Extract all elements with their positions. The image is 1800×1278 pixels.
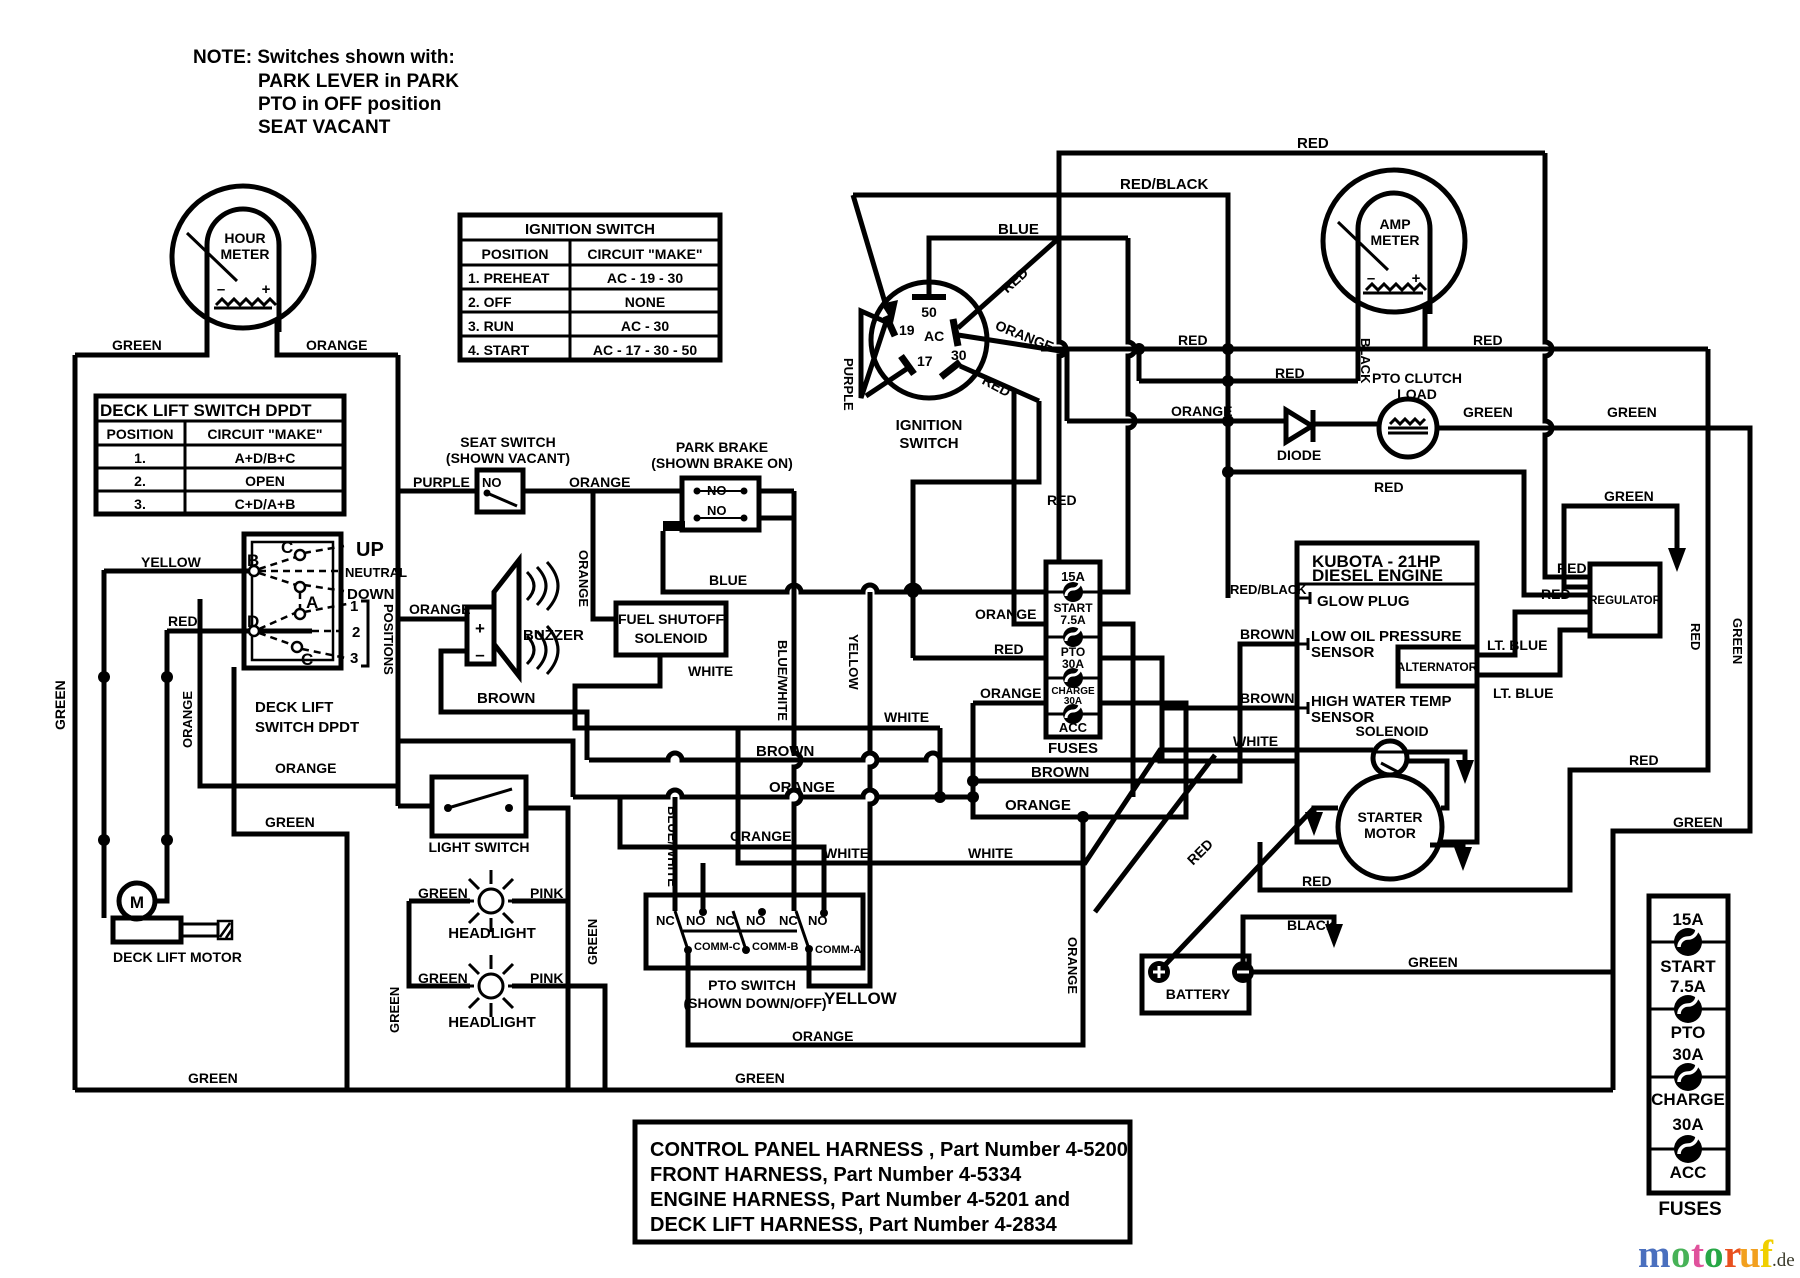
- buzzer: [467, 560, 584, 676]
- diode D1: [1286, 410, 1312, 442]
- svg-text:POSITIONS: POSITIONS: [381, 604, 396, 675]
- svg-text:SWITCH: SWITCH: [899, 435, 958, 452]
- svg-text:BLUE/WHITE: BLUE/WHITE: [775, 640, 790, 721]
- svg-text:DIODE: DIODE: [1277, 447, 1321, 463]
- hour meter: [172, 186, 314, 332]
- svg-text:ORANGE: ORANGE: [306, 337, 367, 353]
- svg-text:ORANGE: ORANGE: [275, 760, 336, 776]
- svg-text:RED: RED: [1297, 135, 1329, 152]
- svg-text:LIGHT SWITCH: LIGHT SWITCH: [428, 839, 529, 855]
- KUBOTA engine box: [1297, 543, 1477, 842]
- svg-text:GREEN: GREEN: [1463, 404, 1513, 420]
- svg-text:SWITCH DPDT: SWITCH DPDT: [255, 719, 359, 736]
- svg-text:UP: UP: [356, 539, 384, 561]
- battery red diagonal: [1164, 808, 1314, 966]
- svg-text:(SHOWN BRAKE ON): (SHOWN BRAKE ON): [651, 455, 793, 471]
- svg-text:30A: 30A: [1672, 1115, 1703, 1134]
- svg-text:ALTERNATOR: ALTERNATOR: [1397, 660, 1478, 674]
- svg-text:50: 50: [921, 304, 937, 320]
- svg-text:30: 30: [951, 347, 967, 363]
- headlight 2 wires: [409, 901, 470, 986]
- headlight 1: [418, 870, 563, 942]
- svg-text:MOTOR: MOTOR: [1364, 825, 1416, 841]
- svg-text:COMM-A: COMM-A: [815, 944, 861, 956]
- svg-text:LOW OIL PRESSURE: LOW OIL PRESSURE: [1311, 628, 1462, 645]
- svg-text:A+D/B+C: A+D/B+C: [235, 450, 296, 466]
- svg-text:ORANGE: ORANGE: [409, 601, 470, 617]
- svg-text:COMM-B: COMM-B: [752, 941, 798, 953]
- svg-text:GREEN: GREEN: [52, 680, 68, 730]
- motoruf logo: [1638, 1233, 1795, 1276]
- svg-text:PURPLE: PURPLE: [841, 358, 856, 411]
- svg-text:WHITE: WHITE: [688, 663, 733, 679]
- junction dots: [98, 671, 110, 683]
- battery: [1142, 956, 1254, 1013]
- svg-text:WHITE: WHITE: [884, 709, 929, 725]
- svg-text:BROWN: BROWN: [756, 743, 814, 760]
- svg-text:ACC: ACC: [1059, 720, 1088, 735]
- deck lift switch DPDT component: [244, 534, 407, 736]
- svg-text:7.5A: 7.5A: [1060, 613, 1086, 627]
- svg-text:BATTERY: BATTERY: [1166, 986, 1231, 1002]
- svg-text:NO: NO: [707, 503, 727, 518]
- svg-text:FUEL SHUTOFF: FUEL SHUTOFF: [618, 611, 724, 627]
- svg-text:RED: RED: [1688, 623, 1703, 650]
- svg-text:CHARGE: CHARGE: [1651, 1090, 1725, 1109]
- node brown junction: [967, 775, 979, 787]
- svg-text:METER: METER: [221, 246, 270, 262]
- svg-text:RED: RED: [994, 641, 1024, 657]
- svg-text:o: o: [1704, 1233, 1724, 1276]
- svg-text:DECK LIFT HARNESS, Part Number: DECK LIFT HARNESS, Part Number 4-2834: [650, 1214, 1058, 1236]
- svg-text:AMP: AMP: [1379, 216, 1410, 232]
- svg-text:–: –: [475, 645, 484, 664]
- svg-text:+: +: [262, 281, 271, 298]
- svg-text:ACC: ACC: [1670, 1163, 1707, 1182]
- svg-text:GREEN: GREEN: [188, 1070, 238, 1086]
- wire white to NO1: [701, 863, 706, 912]
- svg-text:BROWN: BROWN: [1240, 626, 1294, 642]
- svg-text:7.5A: 7.5A: [1670, 977, 1706, 996]
- svg-text:.de: .de: [1772, 1250, 1795, 1271]
- svg-text:DECK LIFT SWITCH DPDT: DECK LIFT SWITCH DPDT: [100, 401, 312, 420]
- svg-text:C: C: [301, 650, 313, 669]
- svg-text:NONE: NONE: [625, 294, 665, 310]
- svg-text:NC: NC: [716, 913, 735, 928]
- svg-text:FRONT HARNESS, Part Number 4-5: FRONT HARNESS, Part Number 4-5334: [650, 1164, 1022, 1186]
- svg-text:HEADLIGHT: HEADLIGHT: [448, 925, 536, 942]
- svg-text:1: 1: [350, 598, 358, 615]
- wire from 17 region down: [913, 401, 1039, 658]
- wire RED long vertical from top: [1545, 153, 1590, 577]
- svg-text:BROWN: BROWN: [1240, 690, 1294, 706]
- svg-text:+: +: [475, 619, 485, 638]
- headlight 1 wires: [409, 899, 470, 904]
- svg-text:REGULATOR: REGULATOR: [1589, 595, 1661, 607]
- svg-text:3: 3: [350, 650, 358, 667]
- seat switch: [446, 434, 570, 512]
- svg-text:NO: NO: [482, 475, 502, 490]
- svg-text:CIRCUIT "MAKE": CIRCUIT "MAKE": [207, 426, 322, 442]
- svg-text:IGNITION SWITCH: IGNITION SWITCH: [525, 221, 655, 238]
- svg-text:(SHOWN DOWN/OFF): (SHOWN DOWN/OFF): [683, 995, 826, 1011]
- svg-text:CONTROL PANEL HARNESS , Part N: CONTROL PANEL HARNESS , Part Number 4-52…: [650, 1139, 1128, 1161]
- svg-text:m: m: [1638, 1233, 1671, 1276]
- svg-text:RED: RED: [1629, 752, 1659, 768]
- svg-text:PTO CLUTCH: PTO CLUTCH: [1372, 370, 1462, 386]
- svg-text:OPEN: OPEN: [245, 473, 285, 489]
- svg-text:HIGH WATER TEMP: HIGH WATER TEMP: [1311, 693, 1452, 710]
- svg-text:RED: RED: [1047, 492, 1077, 508]
- svg-text:WHITE: WHITE: [968, 845, 1013, 861]
- fuel shutoff solenoid: [616, 603, 726, 655]
- svg-text:SEAT VACANT: SEAT VACANT: [258, 117, 391, 138]
- svg-text:DIESEL ENGINE: DIESEL ENGINE: [1312, 566, 1443, 585]
- svg-text:PARK BRAKE: PARK BRAKE: [676, 439, 768, 455]
- svg-text:PTO: PTO: [1671, 1023, 1706, 1042]
- svg-text:15A: 15A: [1672, 910, 1703, 929]
- svg-text:GREEN: GREEN: [1673, 814, 1723, 830]
- svg-text:GREEN: GREEN: [265, 814, 315, 830]
- svg-text:2.: 2.: [134, 473, 146, 489]
- svg-text:3. RUN: 3. RUN: [468, 318, 514, 334]
- svg-text:NOTE: Switches shown with:: NOTE: Switches shown with:: [193, 47, 455, 68]
- arrow diagonal into 19: [853, 195, 886, 306]
- svg-text:RED: RED: [1302, 873, 1332, 889]
- svg-text:BROWN: BROWN: [477, 690, 535, 707]
- svg-text:LT. BLUE: LT. BLUE: [1493, 685, 1553, 701]
- node orange junction: [1077, 811, 1089, 823]
- node white/orange junction: [934, 791, 946, 803]
- svg-text:RED: RED: [168, 613, 198, 629]
- svg-text:ORANGE: ORANGE: [576, 550, 591, 607]
- svg-text:FUSES: FUSES: [1048, 740, 1098, 757]
- svg-text:ORANGE: ORANGE: [569, 474, 630, 490]
- wire ORANGE main vertical from hour meter: [396, 355, 401, 806]
- svg-text:4. START: 4. START: [468, 342, 530, 358]
- svg-text:DECK LIFT: DECK LIFT: [255, 699, 333, 716]
- svg-text:GREEN: GREEN: [112, 337, 162, 353]
- svg-text:RED/BLACK: RED/BLACK: [1230, 582, 1307, 597]
- svg-text:o: o: [1671, 1233, 1691, 1276]
- svg-text:COMM-C: COMM-C: [694, 941, 740, 953]
- wire vertical red branch: [155, 630, 167, 901]
- svg-text:POSITION: POSITION: [107, 426, 174, 442]
- svg-text:RED: RED: [1374, 479, 1404, 495]
- svg-text:AC: AC: [924, 328, 944, 344]
- svg-text:YELLOW: YELLOW: [824, 989, 898, 1008]
- svg-text:GREEN: GREEN: [735, 1070, 785, 1086]
- svg-text:1.: 1.: [134, 450, 146, 466]
- svg-text:PURPLE: PURPLE: [413, 474, 470, 490]
- svg-text:2: 2: [352, 624, 360, 641]
- svg-text:RED/BLACK: RED/BLACK: [1120, 176, 1208, 193]
- wire white branch vertical: [938, 728, 943, 797]
- wire light switch left: [398, 804, 432, 809]
- svg-text:NC: NC: [779, 913, 798, 928]
- ignition switch table: [460, 215, 720, 360]
- svg-text:AC - 19 - 30: AC - 19 - 30: [607, 270, 683, 286]
- svg-text:BROWN: BROWN: [1031, 764, 1089, 781]
- svg-text:STARTER: STARTER: [1357, 809, 1422, 825]
- svg-text:HOUR: HOUR: [224, 230, 265, 246]
- svg-text:WHITE: WHITE: [824, 845, 869, 861]
- svg-text:GREEN: GREEN: [1730, 618, 1745, 664]
- PTO clutch load: [1372, 370, 1462, 457]
- svg-text:GREEN: GREEN: [1604, 488, 1654, 504]
- svg-text:GREEN: GREEN: [1408, 954, 1458, 970]
- solenoid right arrow: [1407, 752, 1465, 762]
- svg-text:3.: 3.: [134, 496, 146, 512]
- svg-text:ORANGE: ORANGE: [1171, 403, 1232, 419]
- harness text box: [635, 1122, 1130, 1242]
- svg-text:ORANGE: ORANGE: [180, 691, 195, 748]
- light switch: [398, 777, 530, 855]
- svg-text:BLUE: BLUE: [709, 572, 747, 588]
- node red junction: [1133, 343, 1145, 355]
- svg-text:HEADLIGHT: HEADLIGHT: [448, 1014, 536, 1031]
- svg-text:30A: 30A: [1672, 1045, 1703, 1064]
- svg-text:u: u: [1739, 1233, 1761, 1276]
- svg-text:PTO in OFF position: PTO in OFF position: [258, 94, 441, 115]
- svg-text:–: –: [217, 281, 225, 298]
- svg-text:GLOW PLUG: GLOW PLUG: [1317, 593, 1410, 610]
- svg-text:M: M: [130, 893, 144, 912]
- svg-text:FUSES: FUSES: [1658, 1199, 1721, 1220]
- svg-text:POSITION: POSITION: [482, 246, 549, 262]
- amp meter: [1323, 170, 1465, 314]
- svg-text:NC: NC: [656, 913, 675, 928]
- svg-text:ORANGE: ORANGE: [975, 606, 1036, 622]
- starter bottom right arrow: [1430, 845, 1463, 848]
- wire BLUE long vertical to fuse panel: [1059, 238, 1066, 562]
- svg-text:RED: RED: [1178, 332, 1208, 348]
- park brake switch: [651, 439, 793, 531]
- alternator: [1397, 647, 1478, 686]
- wire RED diagonal to solenoid: [1095, 755, 1215, 912]
- svg-text:ENGINE HARNESS, Part Number 4-: ENGINE HARNESS, Part Number 4-5201 and: [650, 1189, 1070, 1211]
- svg-text:AC - 17 - 30 - 50: AC - 17 - 30 - 50: [593, 342, 697, 358]
- svg-text:DECK LIFT MOTOR: DECK LIFT MOTOR: [113, 949, 242, 965]
- svg-text:ORANGE: ORANGE: [1065, 937, 1080, 994]
- svg-text:t: t: [1691, 1233, 1704, 1276]
- regulator: [1589, 564, 1661, 636]
- svg-text:BUZZER: BUZZER: [523, 627, 584, 644]
- svg-text:ORANGE: ORANGE: [792, 1028, 853, 1044]
- wire red riser: [1137, 349, 1142, 381]
- svg-text:1. PREHEAT: 1. PREHEAT: [468, 270, 550, 286]
- svg-text:19: 19: [899, 322, 915, 338]
- svg-text:RED: RED: [1473, 332, 1503, 348]
- fuse panel middle: [1046, 562, 1100, 757]
- svg-text:AC - 30: AC - 30: [621, 318, 669, 334]
- note text block: [193, 47, 459, 138]
- svg-text:SOLENOID: SOLENOID: [634, 630, 707, 646]
- starter left stub arrow: [1314, 808, 1338, 812]
- solenoid on engine: [1355, 723, 1428, 775]
- deck lift switch table: [96, 396, 344, 514]
- wire vertical left yellow branch: [102, 570, 107, 918]
- svg-text:15A: 15A: [1061, 569, 1085, 584]
- svg-text:SOLENOID: SOLENOID: [1355, 723, 1428, 739]
- svg-text:PARK LEVER in PARK: PARK LEVER in PARK: [258, 71, 459, 92]
- starter right link to solenoid: [1407, 761, 1447, 808]
- fuse panel right: [1649, 896, 1728, 1220]
- svg-text:IGNITION: IGNITION: [896, 417, 963, 434]
- svg-text:WHITE: WHITE: [1233, 733, 1278, 749]
- svg-text:GREEN: GREEN: [1607, 404, 1657, 420]
- svg-text:ORANGE: ORANGE: [1005, 797, 1071, 814]
- starter motor: [1338, 775, 1442, 879]
- ignition switch: [871, 282, 987, 452]
- svg-text:ORANGE: ORANGE: [980, 685, 1041, 701]
- svg-text:SEAT SWITCH: SEAT SWITCH: [460, 434, 555, 450]
- svg-text:BLUE: BLUE: [998, 221, 1039, 238]
- svg-text:C: C: [281, 538, 293, 557]
- svg-text:PTO SWITCH: PTO SWITCH: [708, 977, 796, 993]
- svg-text:GREEN: GREEN: [387, 987, 402, 1033]
- svg-text:YELLOW: YELLOW: [846, 634, 861, 690]
- wire park brake right side: [759, 489, 794, 494]
- svg-text:CIRCUIT "MAKE": CIRCUIT "MAKE": [587, 246, 702, 262]
- svg-text:(SHOWN VACANT): (SHOWN VACANT): [446, 450, 570, 466]
- svg-text:METER: METER: [1371, 232, 1420, 248]
- svg-text:GREEN: GREEN: [585, 919, 600, 965]
- svg-text:YELLOW: YELLOW: [141, 554, 202, 570]
- svg-text:2. OFF: 2. OFF: [468, 294, 512, 310]
- fuse right side wires: [1100, 238, 1135, 592]
- wire light switch right: [526, 808, 568, 1090]
- svg-text:START: START: [1660, 957, 1716, 976]
- svg-text:C+D/A+B: C+D/A+B: [235, 496, 296, 512]
- svg-text:RED: RED: [1557, 560, 1587, 576]
- PTO switch: [646, 895, 863, 1011]
- headlight 2: [418, 955, 563, 1031]
- deck lift motor: [113, 883, 242, 965]
- svg-text:SENSOR: SENSOR: [1311, 644, 1375, 661]
- svg-text:17: 17: [917, 353, 933, 369]
